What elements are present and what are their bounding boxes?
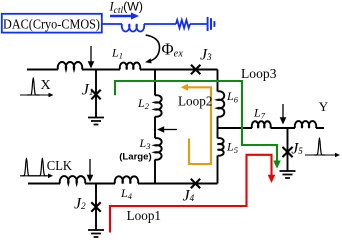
label L6 [226,89,239,104]
label I_ctl (W) [109,0,143,16]
ground: blue sideways ground [208,17,215,31]
junction J2 (vertical branch + X) [91,184,100,230]
flux arrow Phi_ex [145,35,160,63]
inductor L1 [120,62,140,69]
ground below J1 [88,118,104,125]
svg-text:Loop3: Loop3 [241,66,277,81]
wire: center branch [154,70,156,184]
wire: bottom rail [28,183,218,185]
inductor L3 [155,138,162,160]
input pulse X [20,78,54,98]
label Loop2 [178,94,212,109]
label L7 [253,105,266,120]
label J5 [291,141,303,158]
svg-text:Loop1: Loop1 [127,208,161,223]
label L5 [226,140,238,155]
svg-text:(Large): (Large) [119,152,152,163]
wire: right branch [217,70,219,184]
current arrow into node (right) [280,104,287,125]
label L1 [111,45,123,60]
label L2 [137,96,150,111]
label J4 [183,188,195,205]
label L3 [139,136,151,151]
label Loop1 [127,208,161,223]
wire: red Loop1 boundary [110,155,275,233]
current arrow I_ctl [110,12,139,19]
label J1 [82,82,94,99]
svg-text:Y: Y [319,99,329,114]
label (Large) [119,152,152,163]
inductor: blue control coil [122,24,144,32]
inductor: Y output coil [295,121,316,128]
svg-text:X: X [41,78,51,93]
output pulse Y [305,138,340,157]
svg-text:Loop2: Loop2 [178,94,212,109]
resistor: blue termination resistor [176,20,190,28]
label Phi_ex [162,40,184,60]
inductor: CLK input coil [60,176,85,183]
wire: blue control line [102,23,207,25]
inductor L6 [218,91,225,116]
junction J4 [191,179,200,188]
DAC (Cryo-CMOS) box [2,14,102,33]
wire: orange Loop2 arrow [181,84,211,164]
junction J1 (vertical branch + X + wire) [91,70,100,118]
label J3 [200,47,212,64]
inductor L2 [155,95,162,117]
inductor L4 [115,176,138,183]
junction J3 [191,65,200,74]
wire: green Loop3 boundary [115,81,281,169]
inductor L7 [252,121,271,128]
current arrow into node (top) [88,46,95,69]
label Loop3 [241,66,277,81]
label Y [319,99,329,114]
junction J5 (vertical branch + X) [282,128,292,171]
input pulse CLK [20,158,53,178]
svg-text:CLK: CLK [47,159,72,174]
label L4 [120,186,133,201]
ground below J5 [280,171,296,178]
label J2 [74,196,86,213]
inductor: X input coil [58,62,83,69]
inductor L5 [218,138,224,156]
wire: top rail [27,69,218,71]
svg-text:DAC(Cryo-CMOS): DAC(Cryo-CMOS) [3,16,100,32]
wire: L7 row [218,127,325,129]
label X [41,78,51,93]
current arrow (circulating, points left) [157,126,177,133]
ground below J2 [88,230,104,237]
label CLK [47,159,72,174]
current arrow into node (bottom) [87,159,94,182]
